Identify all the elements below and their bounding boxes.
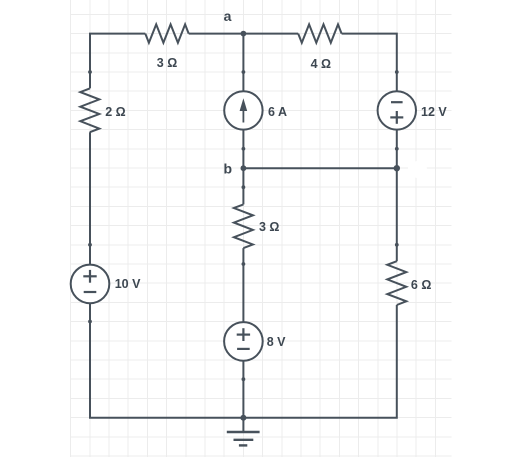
resistor 3ohm (top left) — [145, 24, 188, 42]
wire: 3ohm middle resistor down to 8V source — [242, 248, 244, 322]
resistor 2ohm (left) — [80, 88, 99, 132]
resistor 3ohm (middle) — [234, 204, 253, 248]
svg-text:b: b — [224, 161, 233, 177]
waypoint dot right wire upper — [395, 70, 399, 74]
right junction dot — [394, 165, 400, 171]
white patch artifact right of node b junction — [408, 161, 427, 178]
wire top-left: top-left corner to 3ohm resistor — [90, 34, 145, 89]
wire: 12V source down to right junction — [396, 130, 398, 169]
waypoint dot middle wire above b — [242, 147, 246, 151]
svg-text:3 Ω: 3 Ω — [259, 220, 279, 234]
bottom junction dot — [240, 415, 246, 421]
node b junction dot — [241, 165, 247, 171]
waypoint dot left wire mid — [88, 243, 92, 247]
svg-text:10 V: 10 V — [115, 277, 141, 291]
svg-text:6 Ω: 6 Ω — [411, 278, 431, 292]
wire: 3ohm resistor to node a — [189, 33, 244, 35]
waypoint dot middle wire upper — [242, 70, 246, 74]
wire bottom: bottom junction to bottom-right corner up to 6ohm — [243, 305, 396, 418]
waypoint dot left wire lower — [88, 320, 92, 324]
wire left: 2ohm resistor down to 10V source — [89, 132, 91, 264]
wire: 6A source down to node b — [242, 130, 244, 169]
wire top-right: 4ohm resistor to right wire down to 12V source — [342, 34, 397, 92]
current source 6A — [224, 91, 262, 129]
wire: 8V source down to bottom junction — [242, 361, 244, 418]
voltage source 10V — [71, 265, 110, 304]
waypoint dot middle wire below b — [242, 185, 246, 189]
svg-text:a: a — [224, 8, 232, 24]
waypoint dot right wire above junction — [395, 147, 399, 151]
svg-text:2 Ω: 2 Ω — [105, 105, 125, 119]
ground — [227, 418, 260, 446]
svg-text:4 Ω: 4 Ω — [311, 57, 331, 71]
voltage source 12V — [378, 91, 416, 129]
wire: node b horizontal to right junction — [243, 167, 396, 169]
wire: node b down to 3ohm middle resistor — [242, 168, 244, 204]
wire left: 10V source down to bottom-left corner and bottom wire — [90, 303, 243, 418]
waypoint dot middle wire below 3ohm — [242, 262, 246, 266]
waypoint dot right wire below junction — [395, 243, 399, 247]
waypoint dot left wire upper — [88, 70, 92, 74]
waypoint dot middle wire below 8V — [242, 377, 246, 381]
wire right: right junction down to 6ohm resistor — [396, 168, 398, 261]
svg-text:3 Ω: 3 Ω — [157, 56, 177, 70]
node a junction dot — [241, 31, 247, 37]
svg-text:6 A: 6 A — [268, 105, 287, 119]
resistor 6ohm (right) — [387, 261, 406, 305]
resistor 4ohm (top right) — [298, 24, 341, 42]
wire: node a down to 6A source — [242, 34, 244, 92]
voltage source 8V — [224, 322, 263, 361]
svg-text:12 V: 12 V — [421, 105, 447, 119]
grid (decorative) — [71, 0, 452, 457]
wire: node a to 4ohm resistor — [243, 33, 298, 35]
svg-text:8 V: 8 V — [267, 335, 286, 349]
